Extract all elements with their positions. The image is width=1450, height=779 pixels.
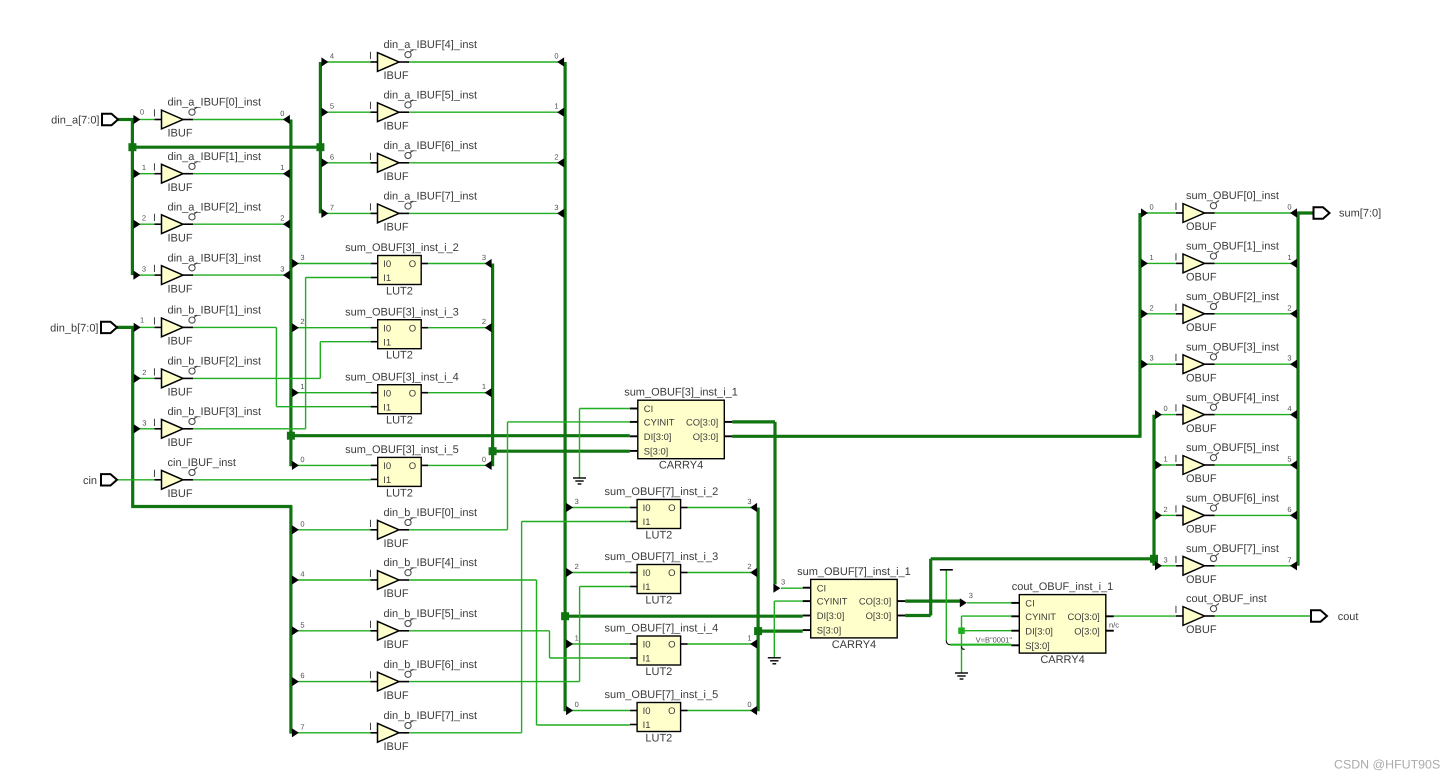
svg-text:CARRY4: CARRY4	[832, 639, 876, 651]
svg-text:IBUF: IBUF	[168, 232, 193, 244]
svg-text:din_b_IBUF[6]_inst: din_b_IBUF[6]_inst	[384, 659, 478, 671]
svg-text:IBUF: IBUF	[168, 437, 193, 449]
svg-text:4: 4	[330, 52, 334, 61]
svg-text:IBUF: IBUF	[384, 70, 409, 82]
svg-text:I: I	[153, 162, 156, 174]
svg-text:din_b_IBUF[4]_inst: din_b_IBUF[4]_inst	[384, 557, 478, 569]
svg-text:2: 2	[142, 368, 146, 377]
svg-text:O: O	[409, 388, 416, 399]
svg-text:2: 2	[575, 562, 579, 571]
svg-text:3: 3	[747, 497, 751, 506]
svg-text:3: 3	[482, 253, 486, 262]
svg-text:1: 1	[482, 382, 486, 391]
svg-text:1: 1	[140, 316, 144, 325]
svg-text:I1: I1	[643, 654, 651, 665]
svg-text:5: 5	[330, 102, 334, 111]
svg-text:LUT2: LUT2	[386, 350, 413, 362]
svg-text:OBUF: OBUF	[1186, 624, 1217, 636]
svg-text:CYINIT: CYINIT	[817, 596, 848, 607]
svg-text:din_a_IBUF[2]_inst: din_a_IBUF[2]_inst	[168, 201, 262, 213]
svg-text:3: 3	[280, 265, 284, 274]
svg-text:V=B"0001": V=B"0001"	[976, 636, 1013, 645]
svg-text:din_b_IBUF[1]_inst: din_b_IBUF[1]_inst	[168, 305, 262, 317]
svg-text:din_a[7:0]: din_a[7:0]	[51, 115, 99, 127]
svg-text:I: I	[1175, 352, 1178, 364]
svg-text:din_b_IBUF[0]_inst: din_b_IBUF[0]_inst	[384, 507, 478, 519]
svg-text:1: 1	[300, 382, 304, 391]
svg-text:sum_OBUF[7]_inst_i_4: sum_OBUF[7]_inst_i_4	[604, 623, 718, 635]
svg-text:0: 0	[280, 109, 284, 118]
svg-text:2: 2	[142, 214, 146, 223]
svg-text:1: 1	[575, 634, 579, 643]
svg-text:sum[7:0]: sum[7:0]	[1339, 208, 1381, 220]
svg-text:din_a_IBUF[3]_inst: din_a_IBUF[3]_inst	[168, 252, 262, 264]
svg-text:DI[3:0]: DI[3:0]	[817, 610, 845, 621]
svg-text:IBUF: IBUF	[168, 128, 193, 140]
svg-text:LUT2: LUT2	[645, 530, 672, 542]
svg-text:sum_OBUF[5]_inst: sum_OBUF[5]_inst	[1186, 442, 1279, 454]
svg-text:I: I	[369, 50, 372, 62]
svg-text:I0: I0	[383, 461, 391, 472]
svg-text:din_a_IBUF[4]_inst: din_a_IBUF[4]_inst	[384, 39, 478, 51]
svg-text:IBUF: IBUF	[384, 690, 409, 702]
svg-text:OBUF: OBUF	[1186, 473, 1217, 485]
svg-text:O: O	[668, 640, 675, 651]
svg-text:OBUF: OBUF	[1186, 574, 1217, 586]
svg-text:IBUF: IBUF	[168, 336, 193, 348]
svg-text:LUT2: LUT2	[386, 286, 413, 298]
svg-text:1: 1	[1164, 455, 1168, 464]
svg-text:O: O	[668, 503, 675, 514]
svg-text:I1: I1	[643, 720, 651, 731]
svg-text:CI: CI	[644, 403, 653, 414]
svg-text:I: I	[369, 151, 372, 163]
svg-text:din_b_IBUF[2]_inst: din_b_IBUF[2]_inst	[168, 356, 262, 368]
svg-text:LUT2: LUT2	[386, 415, 413, 427]
svg-text:6: 6	[330, 152, 334, 161]
svg-text:I: I	[153, 263, 156, 275]
svg-text:I0: I0	[383, 388, 391, 399]
svg-text:I: I	[153, 468, 156, 480]
svg-text:0: 0	[300, 455, 304, 464]
svg-text:CARRY4: CARRY4	[1040, 654, 1084, 666]
svg-text:sum_OBUF[7]_inst_i_3: sum_OBUF[7]_inst_i_3	[604, 551, 718, 563]
svg-text:CYINIT: CYINIT	[644, 417, 675, 428]
svg-text:IBUF: IBUF	[384, 588, 409, 600]
svg-text:I1: I1	[383, 273, 391, 284]
svg-text:cout: cout	[1338, 611, 1359, 623]
svg-text:OBUF: OBUF	[1186, 322, 1217, 334]
svg-text:I: I	[153, 417, 156, 429]
svg-text:I: I	[153, 366, 156, 378]
svg-text:1: 1	[1287, 253, 1291, 262]
svg-text:0: 0	[554, 52, 558, 61]
svg-text:2: 2	[1164, 505, 1168, 514]
svg-text:7: 7	[1287, 555, 1291, 564]
svg-text:I: I	[369, 201, 372, 213]
svg-text:1: 1	[280, 163, 284, 172]
svg-text:I1: I1	[383, 402, 391, 413]
svg-text:I: I	[369, 518, 372, 530]
svg-text:DI[3:0]: DI[3:0]	[644, 431, 672, 442]
svg-text:sum_OBUF[1]_inst: sum_OBUF[1]_inst	[1186, 241, 1279, 253]
svg-text:din_b_IBUF[3]_inst: din_b_IBUF[3]_inst	[168, 406, 262, 418]
svg-text:S[3:0]: S[3:0]	[644, 446, 669, 457]
svg-text:din_b_IBUF[7]_inst: din_b_IBUF[7]_inst	[384, 710, 478, 722]
svg-text:I1: I1	[643, 517, 651, 528]
svg-text:IBUF: IBUF	[384, 639, 409, 651]
svg-text:I0: I0	[383, 259, 391, 270]
svg-text:sum_OBUF[3]_inst: sum_OBUF[3]_inst	[1186, 341, 1279, 353]
svg-text:I: I	[1175, 554, 1178, 566]
svg-text:I: I	[1175, 201, 1178, 213]
svg-text:3: 3	[1164, 555, 1168, 564]
svg-text:IBUF: IBUF	[384, 222, 409, 234]
svg-text:CSDN @HFUT90S: CSDN @HFUT90S	[1334, 758, 1440, 772]
svg-text:CARRY4: CARRY4	[659, 460, 703, 472]
svg-text:0: 0	[575, 700, 579, 709]
svg-text:2: 2	[300, 317, 304, 326]
svg-text:CI: CI	[1025, 598, 1034, 609]
svg-text:IBUF: IBUF	[168, 283, 193, 295]
svg-text:din_a_IBUF[0]_inst: din_a_IBUF[0]_inst	[168, 97, 262, 109]
svg-text:S[3:0]: S[3:0]	[817, 625, 842, 636]
svg-text:CO[3:0]: CO[3:0]	[859, 596, 891, 607]
svg-text:I: I	[153, 315, 156, 327]
svg-text:OBUF: OBUF	[1186, 524, 1217, 536]
svg-text:2: 2	[1287, 303, 1291, 312]
svg-text:LUT2: LUT2	[645, 666, 672, 678]
svg-text:sum_OBUF[3]_inst_i_1: sum_OBUF[3]_inst_i_1	[624, 387, 738, 399]
svg-text:cout_OBUF_inst_i_1: cout_OBUF_inst_i_1	[1012, 581, 1114, 593]
svg-text:I: I	[369, 670, 372, 682]
svg-text:sum_OBUF[7]_inst_i_2: sum_OBUF[7]_inst_i_2	[604, 486, 718, 498]
svg-text:3: 3	[1287, 354, 1291, 363]
svg-text:O[3:0]: O[3:0]	[1074, 625, 1100, 636]
svg-text:CYINIT: CYINIT	[1025, 611, 1056, 622]
svg-text:I: I	[1175, 251, 1178, 263]
svg-text:0: 0	[140, 108, 144, 117]
svg-text:2: 2	[747, 562, 751, 571]
svg-text:OBUF: OBUF	[1186, 372, 1217, 384]
svg-text:I0: I0	[643, 503, 651, 514]
svg-text:OBUF: OBUF	[1186, 221, 1217, 233]
svg-text:I: I	[369, 100, 372, 112]
svg-text:IBUF: IBUF	[384, 538, 409, 550]
svg-text:cin: cin	[83, 475, 97, 487]
svg-text:sum_OBUF[6]_inst: sum_OBUF[6]_inst	[1186, 493, 1279, 505]
svg-text:3: 3	[554, 203, 558, 212]
svg-text:sum_OBUF[2]_inst: sum_OBUF[2]_inst	[1186, 291, 1279, 303]
svg-text:I: I	[369, 619, 372, 631]
svg-text:0: 0	[1150, 203, 1154, 212]
svg-text:LUT2: LUT2	[386, 487, 413, 499]
svg-text:I0: I0	[643, 706, 651, 717]
svg-text:O: O	[409, 323, 416, 334]
svg-text:3: 3	[1150, 354, 1154, 363]
svg-text:2: 2	[280, 214, 284, 223]
svg-text:O[3:0]: O[3:0]	[866, 610, 892, 621]
svg-text:7: 7	[300, 722, 304, 731]
svg-text:n/c: n/c	[1109, 621, 1119, 630]
svg-text:O: O	[668, 706, 675, 717]
svg-text:0: 0	[1164, 404, 1168, 413]
svg-text:din_b_IBUF[5]_inst: din_b_IBUF[5]_inst	[384, 608, 478, 620]
svg-text:0: 0	[482, 455, 486, 464]
svg-text:IBUF: IBUF	[384, 120, 409, 132]
svg-text:I1: I1	[383, 475, 391, 486]
svg-text:3: 3	[781, 578, 785, 587]
svg-text:sum_OBUF[4]_inst: sum_OBUF[4]_inst	[1186, 392, 1279, 404]
svg-text:6: 6	[300, 671, 304, 680]
svg-text:I0: I0	[643, 568, 651, 579]
svg-text:IBUF: IBUF	[384, 741, 409, 753]
svg-text:din_b[7:0]: din_b[7:0]	[50, 323, 98, 335]
svg-text:sum_OBUF[3]_inst_i_4: sum_OBUF[3]_inst_i_4	[345, 371, 459, 383]
svg-text:1: 1	[1150, 253, 1154, 262]
svg-text:4: 4	[1287, 404, 1291, 413]
svg-text:cout_OBUF_inst: cout_OBUF_inst	[1186, 593, 1267, 605]
svg-text:3: 3	[142, 418, 146, 427]
svg-text:S[3:0]: S[3:0]	[1025, 640, 1050, 651]
svg-text:3: 3	[969, 591, 973, 600]
svg-text:I: I	[1175, 503, 1178, 515]
svg-text:sum_OBUF[7]_inst_i_1: sum_OBUF[7]_inst_i_1	[797, 566, 911, 578]
svg-text:din_a_IBUF[5]_inst: din_a_IBUF[5]_inst	[384, 89, 478, 101]
svg-text:2: 2	[1150, 303, 1154, 312]
svg-text:2: 2	[482, 317, 486, 326]
svg-text:I: I	[1175, 453, 1178, 465]
svg-text:1: 1	[142, 163, 146, 172]
svg-text:2: 2	[554, 152, 558, 161]
svg-text:sum_OBUF[3]_inst_i_5: sum_OBUF[3]_inst_i_5	[345, 444, 459, 456]
svg-text:IBUF: IBUF	[168, 488, 193, 500]
svg-text:LUT2: LUT2	[645, 595, 672, 607]
svg-text:I0: I0	[383, 323, 391, 334]
svg-text:din_a_IBUF[7]_inst: din_a_IBUF[7]_inst	[384, 191, 478, 203]
svg-text:6: 6	[1287, 505, 1291, 514]
svg-text:din_a_IBUF[1]_inst: din_a_IBUF[1]_inst	[168, 151, 262, 163]
svg-text:I: I	[369, 568, 372, 580]
svg-text:sum_OBUF[7]_inst_i_5: sum_OBUF[7]_inst_i_5	[604, 689, 718, 701]
svg-text:din_a_IBUF[6]_inst: din_a_IBUF[6]_inst	[384, 140, 478, 152]
svg-text:sum_OBUF[7]_inst: sum_OBUF[7]_inst	[1186, 543, 1279, 555]
svg-text:sum_OBUF[0]_inst: sum_OBUF[0]_inst	[1186, 190, 1279, 202]
svg-text:sum_OBUF[3]_inst_i_3: sum_OBUF[3]_inst_i_3	[345, 306, 459, 318]
svg-text:O: O	[409, 461, 416, 472]
svg-text:CI: CI	[817, 582, 826, 593]
svg-text:I0: I0	[643, 640, 651, 651]
svg-text:1: 1	[554, 102, 558, 111]
svg-text:0: 0	[300, 519, 304, 528]
svg-text:0: 0	[1287, 203, 1291, 212]
svg-text:3: 3	[142, 265, 146, 274]
svg-text:CO[3:0]: CO[3:0]	[686, 417, 718, 428]
svg-text:CO[3:0]: CO[3:0]	[1067, 611, 1099, 622]
svg-text:I: I	[153, 108, 156, 120]
svg-text:I: I	[1175, 604, 1178, 616]
svg-text:5: 5	[300, 620, 304, 629]
svg-text:4: 4	[300, 570, 304, 579]
svg-text:I: I	[1175, 302, 1178, 314]
svg-text:I1: I1	[643, 582, 651, 593]
svg-text:I: I	[1175, 403, 1178, 415]
svg-text:3: 3	[300, 253, 304, 262]
svg-text:sum_OBUF[3]_inst_i_2: sum_OBUF[3]_inst_i_2	[345, 242, 459, 254]
svg-text:OBUF: OBUF	[1186, 423, 1217, 435]
svg-text:I: I	[153, 212, 156, 224]
svg-text:I1: I1	[383, 337, 391, 348]
svg-text:cin_IBUF_inst: cin_IBUF_inst	[168, 457, 236, 469]
svg-text:O: O	[409, 259, 416, 270]
svg-text:IBUF: IBUF	[168, 182, 193, 194]
svg-text:DI[3:0]: DI[3:0]	[1025, 625, 1053, 636]
svg-text:7: 7	[330, 203, 334, 212]
svg-text:O: O	[668, 568, 675, 579]
svg-text:OBUF: OBUF	[1186, 272, 1217, 284]
svg-text:5: 5	[1287, 455, 1291, 464]
svg-text:0: 0	[747, 700, 751, 709]
svg-text:LUT2: LUT2	[645, 733, 672, 745]
svg-text:IBUF: IBUF	[384, 171, 409, 183]
svg-text:IBUF: IBUF	[168, 387, 193, 399]
svg-text:O[3:0]: O[3:0]	[693, 431, 719, 442]
svg-text:1: 1	[747, 634, 751, 643]
svg-text:3: 3	[575, 497, 579, 506]
svg-text:I: I	[369, 721, 372, 733]
